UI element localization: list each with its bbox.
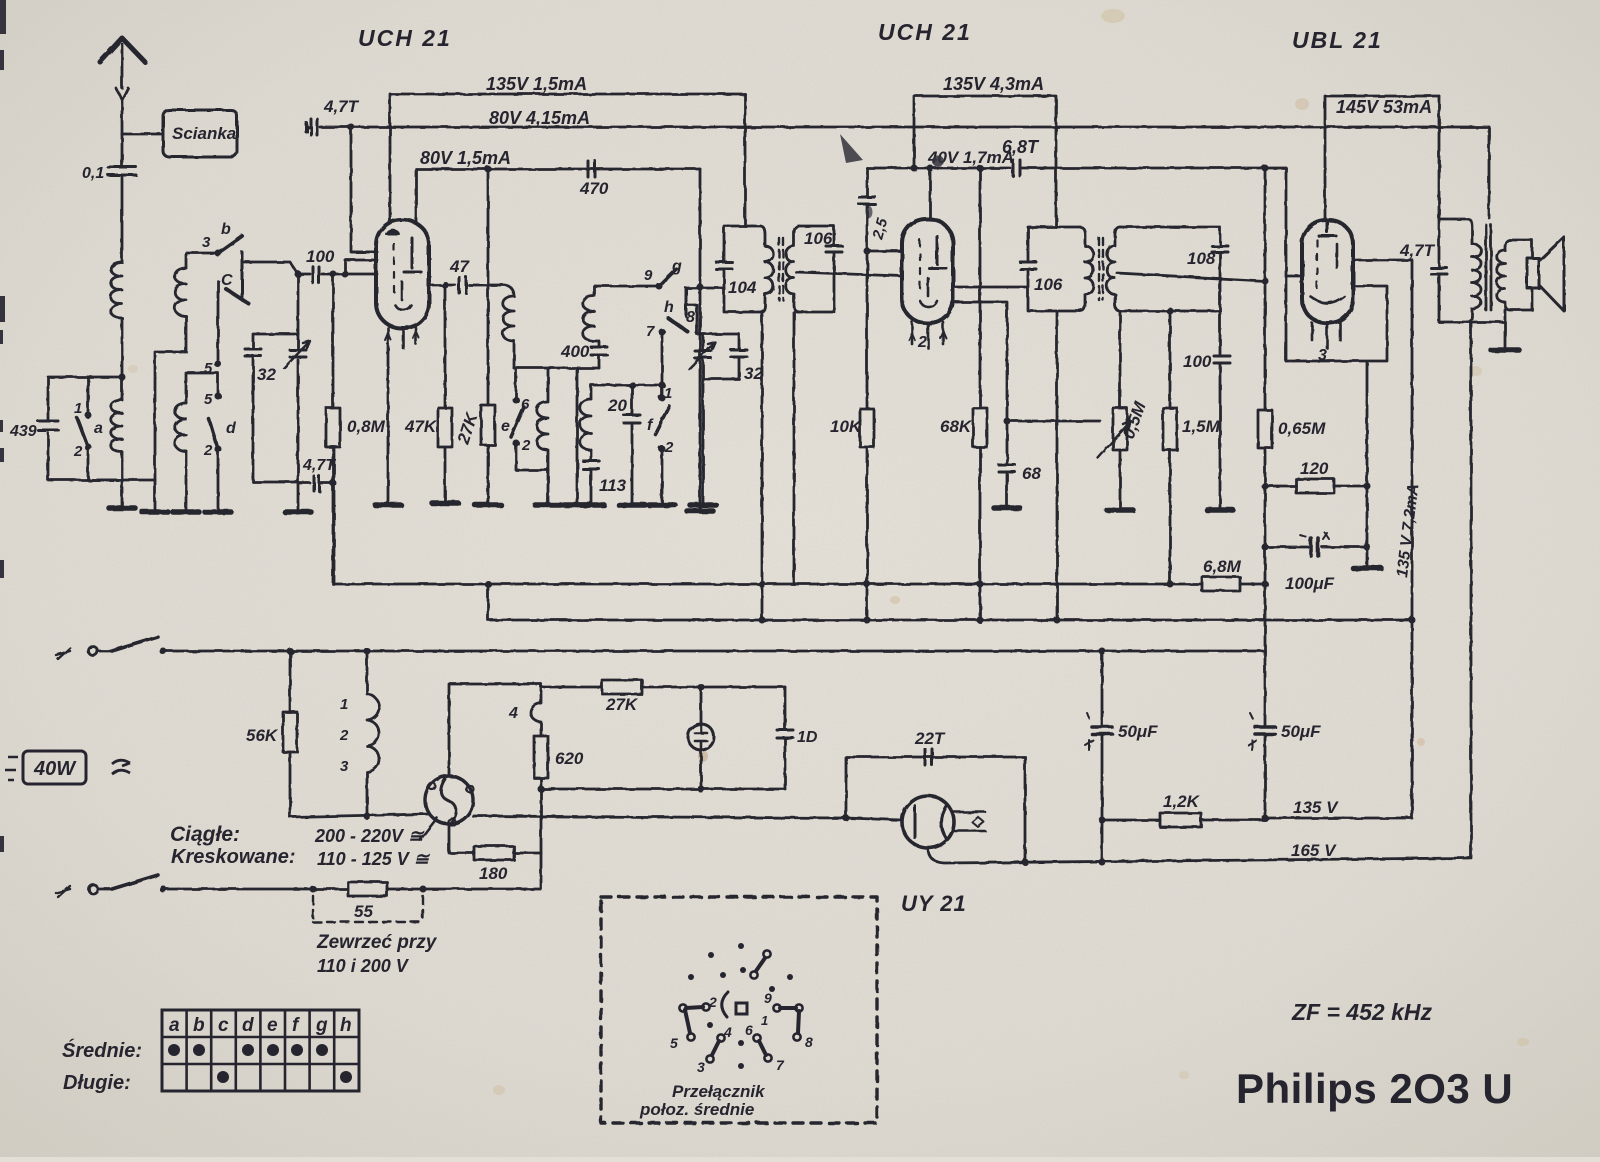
svg-text:1: 1 (340, 696, 348, 713)
wire L4 top to switch d (186, 373, 218, 403)
inductor L4 RF coil bottom (175, 403, 186, 451)
wire 56K to barretter (290, 814, 428, 817)
wire barretter top to lamp line (449, 684, 541, 776)
svg-text:Kreskowane:: Kreskowane: (171, 846, 296, 868)
svg-text:2: 2 (708, 994, 717, 1010)
wire cap47 to osc coil (469, 285, 514, 296)
wire switch 5 contact column (217, 281, 220, 360)
wire junction to resistor 0,8M (332, 274, 335, 408)
switch a contacts (85, 412, 92, 419)
resistor 27K vertical (487, 169, 490, 405)
ink smudge blot (840, 134, 863, 163)
trimmer capacitor padder (695, 351, 711, 358)
svg-text:Długie:: Długie: (63, 1072, 131, 1094)
capacitor 47 series (459, 277, 466, 293)
switch a lever (77, 418, 88, 447)
rail 135V 4,3mA box (914, 96, 1056, 227)
wire L1 to L2 (121, 318, 124, 400)
svg-text:4,7T: 4,7T (1399, 241, 1436, 260)
switch b lever (215, 250, 222, 257)
ground (619, 502, 645, 508)
svg-text:8: 8 (805, 1034, 813, 1050)
svg-text:120: 120 (1300, 459, 1329, 478)
svg-text:2: 2 (203, 442, 213, 459)
capacitor 32 tuning (245, 349, 261, 356)
wire e to link (516, 443, 548, 470)
speaker (1527, 258, 1539, 288)
svg-text:113: 113 (599, 476, 627, 495)
switch c lever (226, 289, 249, 304)
svg-text:C: C (221, 272, 233, 289)
capacitor 106 (826, 246, 842, 252)
terminal circle (89, 885, 98, 894)
wire junction to tuning cap node (297, 274, 300, 334)
svg-text:104: 104 (728, 278, 757, 297)
svg-text:a: a (169, 1015, 180, 1036)
svg-text:0,1: 0,1 (82, 165, 104, 182)
ground (1353, 565, 1381, 571)
switch f lever (655, 406, 669, 434)
ground (109, 505, 135, 511)
svg-text:d: d (226, 420, 237, 437)
capacitor 113 (583, 461, 599, 469)
svg-text:22T: 22T (914, 729, 946, 748)
capacitor 2,5 (859, 197, 875, 204)
wire L8 cap113 ground (590, 450, 593, 505)
mains line 2 (163, 853, 541, 889)
rail 620 (488, 584, 1412, 620)
wire secondary bottom to ground (1473, 310, 1505, 350)
wire cap to coil L1 (121, 175, 124, 262)
socket link bottom-right (759, 1041, 766, 1055)
inductor tap 4 (531, 684, 542, 736)
inductor T3 primary coil (1468, 219, 1481, 322)
inductor L5 osc grid coil (503, 296, 514, 341)
svg-text:UCH 21: UCH 21 (878, 19, 972, 45)
switch d contacts (215, 393, 222, 400)
mains line 2 arrow terminal (56, 886, 70, 897)
ground (687, 508, 713, 514)
switch g contact 9 (656, 283, 663, 290)
bracket node 8 (686, 305, 697, 334)
switch f column (661, 332, 664, 395)
box Scianka (163, 110, 237, 157)
terminal circle (89, 647, 98, 656)
tube V1 UCH21 envelope (376, 220, 429, 328)
wire antenna to Scianka box (122, 133, 163, 136)
ground (994, 505, 1020, 511)
neon lamp (700, 687, 703, 789)
resistor 180 (449, 824, 541, 853)
core T2 (1099, 238, 1103, 300)
wire L5 to node rail 368 (513, 341, 516, 368)
svg-text:4,7T: 4,7T (323, 97, 360, 116)
svg-text:połoz. średnie: połoz. średnie (639, 1100, 754, 1119)
tube V1 grid dashes (393, 244, 395, 292)
resistor 1,5M (1163, 408, 1177, 450)
svg-text:68: 68 (1022, 464, 1041, 483)
capacitor 1D (784, 687, 787, 789)
switch g lever (659, 269, 676, 286)
ground (475, 502, 501, 508)
ground (173, 509, 199, 515)
wire V2 anode to IF2 (953, 286, 1028, 289)
wire L3 top to switch contact 3 (186, 253, 218, 268)
svg-text:6: 6 (521, 396, 530, 413)
svg-text:UBL 21: UBL 21 (1292, 27, 1383, 53)
svg-text:10K: 10K (830, 417, 863, 436)
wire cap100 to tube V1 grid (322, 273, 377, 276)
wire f to ground (661, 449, 664, 505)
svg-text:4: 4 (508, 705, 518, 722)
wire secondary to speaker (1510, 240, 1532, 310)
inductor T1 secondary coil (786, 226, 799, 312)
svg-text:3: 3 (340, 758, 349, 775)
tube V2 anode (929, 236, 946, 268)
switch a vertical line (87, 377, 90, 480)
svg-text:1D: 1D (797, 729, 818, 746)
svg-text:b: b (221, 221, 231, 238)
capacitor 68 (999, 465, 1015, 472)
wire node rail to ground x577 (576, 368, 579, 505)
wire UY21 cathode down to 165V (928, 848, 1469, 863)
svg-text:20: 20 (607, 396, 627, 415)
svg-text:9: 9 (644, 267, 653, 284)
ground (564, 502, 590, 508)
resistor 620 (534, 736, 548, 778)
wire 2,5 cap node to V2 (867, 250, 902, 253)
wire rail1 right corner down to IF1 primary top (744, 94, 747, 226)
mains switch 1 (98, 650, 112, 653)
wire into UY21 anode (846, 818, 902, 820)
svg-text:32: 32 (744, 364, 763, 383)
tube V3 anode (1319, 220, 1336, 236)
switch h lever (668, 318, 688, 332)
inductor L3 RF coil top (175, 268, 186, 316)
wire 80V rail to tube grid (351, 127, 377, 252)
ground (205, 509, 231, 515)
socket diagram UY21 (679, 950, 802, 1062)
svg-text:80V 1,5mA: 80V 1,5mA (420, 148, 511, 168)
tube V3 UBL21 envelope (1302, 220, 1353, 323)
svg-text:620: 620 (555, 749, 584, 768)
ground (432, 500, 458, 506)
wire h bar to IF1 (686, 287, 724, 290)
trimmer capacitor variable (290, 350, 306, 357)
svg-text:0,8M: 0,8M (347, 417, 386, 436)
svg-text:h: h (664, 299, 674, 316)
wire 439 box to ground line (88, 480, 155, 512)
wire 40V rail left end through cap 2,5 down to 10K (866, 168, 869, 409)
capacitor 106 T2 (1020, 262, 1036, 269)
tube V2 pins (912, 322, 943, 348)
tube V1 cathode (395, 282, 411, 310)
svg-text:5: 5 (670, 1035, 678, 1051)
pot wiper arrow (1098, 421, 1130, 458)
rail AVC 584 (334, 447, 1202, 584)
svg-text:a: a (94, 420, 103, 437)
resistor 6,8M (1202, 577, 1240, 591)
inductor L7 osc tank (583, 286, 656, 341)
svg-text:1: 1 (761, 1013, 768, 1028)
socket dots (688, 943, 793, 1069)
switch c bar (241, 252, 244, 297)
wire cap20 (631, 385, 634, 505)
wire 0,65M column down (1264, 448, 1267, 652)
inductor L8 (580, 399, 591, 450)
svg-text:e: e (267, 1015, 278, 1036)
wire 1,5M to rail584 (1169, 450, 1172, 584)
IF transformer T2 secondary box (1120, 227, 1220, 311)
svg-text:6,8T: 6,8T (1002, 137, 1040, 157)
svg-text:Średnie:: Średnie: (62, 1038, 142, 1062)
wire T1 secondary bottom to rail584 (793, 312, 796, 584)
rail 135V 1,5mA (390, 94, 745, 222)
svg-text:1,5M: 1,5M (1182, 417, 1221, 436)
svg-text:g: g (315, 1015, 328, 1036)
svg-text:ZF = 452 kHz: ZF = 452 kHz (1291, 999, 1432, 1025)
wire 47K to ground (444, 447, 447, 503)
capacitor 400 (591, 347, 607, 355)
rail 145V 53mA box (1325, 96, 1439, 220)
node 0,65M column (1264, 168, 1267, 410)
svg-text:135V 1,5mA: 135V 1,5mA (486, 74, 587, 94)
svg-text:80V 4,15mA: 80V 4,15mA (489, 108, 590, 128)
mains switch 2 (98, 888, 112, 891)
wire padder node (697, 334, 739, 505)
ground (690, 502, 716, 508)
ground (649, 502, 675, 508)
wire 68K down to rail620 (979, 447, 982, 620)
wire grid2 jog into tube (345, 252, 377, 274)
tube UY21 rectifier (902, 796, 954, 848)
svg-text:110 - 125 V ≅: 110 - 125 V ≅ (317, 849, 431, 869)
svg-text:100μF: 100μF (1285, 574, 1335, 593)
tube V2 UCH21 envelope (902, 219, 953, 323)
wire 108 edge to cap100 to ground (1219, 311, 1222, 510)
annotation slash (420, 818, 437, 840)
svg-text:32: 32 (257, 365, 276, 384)
svg-text:h: h (340, 1015, 352, 1036)
wire V2 anode top feed (929, 168, 932, 219)
svg-text:56K: 56K (246, 726, 279, 745)
resistor 120 (1265, 485, 1367, 488)
output transformer T3 primary box (1439, 96, 1472, 322)
inductor L6 (537, 368, 548, 505)
capacitor 6,8T (1013, 160, 1020, 176)
wire screen feed 980 (979, 168, 982, 408)
ground (142, 509, 168, 515)
svg-text:9: 9 (764, 990, 772, 1006)
svg-text:g: g (671, 258, 682, 275)
tube V1 anode (404, 238, 421, 272)
inductor T3 secondary coil (1497, 240, 1510, 310)
tube V3 cathode box (1286, 286, 1387, 361)
capacitor 439 plates (38, 421, 58, 430)
ground (375, 502, 401, 508)
wire V1 cathode to ground (387, 344, 390, 505)
svg-text:d: d (242, 1015, 254, 1036)
svg-text:Przełącznik: Przełącznik (672, 1082, 766, 1101)
ground (1107, 507, 1133, 513)
rail 80V 1,5mA (416, 169, 700, 221)
inductor T2 primary coil (1080, 227, 1093, 311)
inductor L1 antenna coil (111, 262, 122, 318)
ground speaker (1491, 347, 1519, 353)
table dots dlugie (217, 1071, 229, 1083)
tube V1 top cap (386, 230, 399, 234)
svg-text:UY 21: UY 21 (901, 891, 967, 916)
svg-text:100: 100 (306, 247, 335, 266)
ground (578, 502, 604, 508)
node rail 385 tank2 (591, 385, 662, 399)
switch h bar (685, 288, 688, 316)
mains line 1 arrow terminal (56, 648, 70, 659)
resistor 0,65M (1258, 410, 1272, 448)
heater chain inductor (367, 651, 379, 817)
svg-text:b: b (193, 1015, 205, 1036)
tube V2 cathode (920, 278, 937, 307)
ground (535, 502, 561, 508)
socket link right (780, 1008, 799, 1033)
wire T1 secondary to tube V2 grid (796, 272, 902, 276)
node junction antenna column (119, 374, 126, 381)
svg-text:UCH 21: UCH 21 (358, 25, 452, 51)
rail 80V 4,15mA (306, 126, 1489, 129)
switch e branch (515, 368, 518, 397)
node rail y368 (514, 367, 599, 370)
wire 80V rail down to core (1488, 127, 1491, 218)
svg-text:c: c (218, 1015, 229, 1036)
svg-text:106: 106 (1034, 275, 1063, 294)
svg-text:0,65M: 0,65M (1278, 419, 1326, 438)
svg-text:47K: 47K (404, 417, 438, 436)
svg-text:108: 108 (1187, 249, 1216, 268)
resistor 10K (860, 409, 874, 447)
resistor 0,8M (326, 408, 340, 447)
socket link bottom-left (712, 1041, 719, 1055)
table band switch (162, 1010, 359, 1091)
wire AVC node to pot (1007, 420, 1100, 423)
box 40W (5, 751, 130, 784)
capacitor 4,7T (1431, 268, 1447, 274)
UY21 pins right (954, 812, 985, 831)
svg-text:2: 2 (664, 439, 674, 456)
inductor T1 primary coil (760, 226, 773, 312)
IF transformer T2 primary box (1028, 227, 1080, 311)
capacitor 108 T2 (1212, 246, 1228, 252)
svg-text:8: 8 (686, 309, 695, 326)
wire 1,5M top (1169, 311, 1172, 408)
wire T2 primary bottom to rail620 (1056, 311, 1059, 620)
tube V3 pins (1312, 323, 1340, 348)
wire switch d to ground (217, 449, 220, 512)
tube V3 grid dashes (1316, 240, 1318, 288)
ground (285, 509, 311, 515)
dashed bracket 55 (313, 896, 423, 922)
capacitor 4,7T top left (311, 119, 317, 135)
wire 0,8M to bottom rail (332, 447, 335, 584)
rail right corner to osc node (699, 169, 702, 511)
tube V3 screen internals (1310, 244, 1344, 303)
svg-text:Ciągłe:: Ciągłe: (170, 823, 240, 846)
mains line 1 (163, 650, 1265, 653)
resistor 47K (438, 408, 452, 447)
wire T2 secondary bottom to pot 0,5M (1119, 311, 1122, 408)
tube V2 grid dashes (919, 240, 921, 288)
svg-text:2: 2 (73, 443, 83, 460)
potentiometer 0,5M (1113, 408, 1127, 450)
capacitor 22T (925, 749, 932, 765)
capacitor 100 (1214, 356, 1230, 363)
svg-text:3: 3 (202, 234, 211, 251)
svg-text:1,2K: 1,2K (1163, 792, 1201, 811)
svg-text:439: 439 (9, 423, 37, 440)
capacitor 50uF first (1101, 651, 1104, 862)
capacitor 104 (716, 262, 732, 269)
svg-text:106: 106 (804, 229, 833, 248)
svg-text:2: 2 (521, 437, 531, 454)
wire 27K to ground (487, 445, 490, 505)
svg-text:145V 53mA: 145V 53mA (1336, 97, 1432, 117)
tuning gang node top (253, 334, 298, 512)
wire 6,8M to 0,65M column (1240, 583, 1265, 586)
svg-text:165 V: 165 V (1291, 841, 1337, 860)
wire pot to ground (1119, 450, 1122, 510)
wire right column 1367 (1366, 362, 1369, 568)
tube V1 anode out wire (429, 284, 455, 287)
switch d lever (209, 419, 218, 449)
svg-text:6: 6 (745, 1022, 753, 1038)
capacitor 0,1 (108, 167, 136, 175)
svg-text:5: 5 (204, 391, 213, 408)
wire switch c to grid line (244, 262, 310, 274)
capacitor 470 in rail (588, 161, 595, 177)
terminal 4,7T cap left (304, 123, 308, 131)
capacitor 439 box circuit (48, 377, 122, 480)
svg-text:4: 4 (723, 1024, 732, 1040)
resistor 27K horizontal (541, 686, 785, 689)
svg-text:3: 3 (1318, 347, 1327, 364)
wire B+ column 1412 (1411, 260, 1414, 818)
svg-text:100: 100 (1183, 352, 1212, 371)
svg-text:47: 47 (449, 257, 470, 276)
svg-text:1: 1 (664, 385, 672, 402)
wire 620 bottom / lamp box bottom (541, 778, 785, 853)
svg-text:50μF: 50μF (1118, 722, 1158, 741)
wire 68 to ground (1006, 472, 1009, 508)
wire to resistor 47K (444, 285, 447, 408)
svg-text:110 i 200 V: 110 i 200 V (317, 956, 410, 976)
capacitor 32 osc (731, 350, 747, 357)
wire cap400 up to L7 (594, 341, 599, 368)
svg-text:7: 7 (776, 1057, 785, 1073)
svg-text:3: 3 (697, 1059, 705, 1075)
barretter lamp (425, 776, 473, 824)
dashed box UY21 socket (601, 897, 877, 1123)
svg-text:4,7T: 4,7T (302, 457, 336, 474)
wire 10K to rail620 (866, 447, 869, 620)
wire 22T right corner down (1024, 757, 1027, 864)
wire T1 primary bottom to rail620 (761, 312, 764, 620)
antenna symbol (100, 38, 145, 62)
wire L2 to ground (121, 452, 124, 508)
svg-text:50μF: 50μF (1281, 722, 1321, 741)
svg-text:27K: 27K (605, 695, 639, 714)
resistor 68K (973, 408, 987, 447)
svg-text:400: 400 (560, 342, 590, 361)
inductor L2 (111, 400, 122, 452)
